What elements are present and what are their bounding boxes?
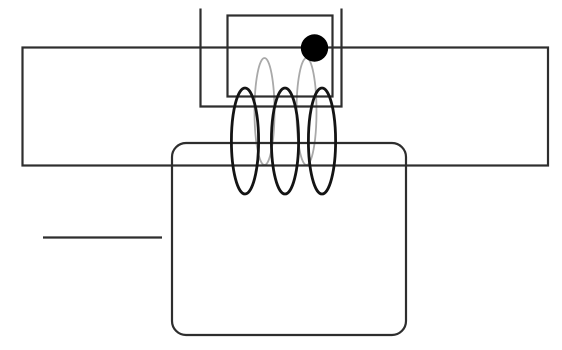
coil turn (light) L1b xyxy=(297,58,317,165)
inner box xyxy=(228,16,333,97)
wide horizontal bar xyxy=(23,48,549,166)
lower rounded box xyxy=(172,143,406,335)
coil turn (light) L1a xyxy=(255,58,275,165)
coil turn (dark) L2b xyxy=(271,88,298,194)
coil turn (dark) L2a xyxy=(231,88,258,194)
top outer U enclosure xyxy=(201,9,342,107)
short lead line xyxy=(43,236,162,238)
coil turn (dark) L2c xyxy=(308,88,335,194)
filled ball node xyxy=(301,34,328,61)
